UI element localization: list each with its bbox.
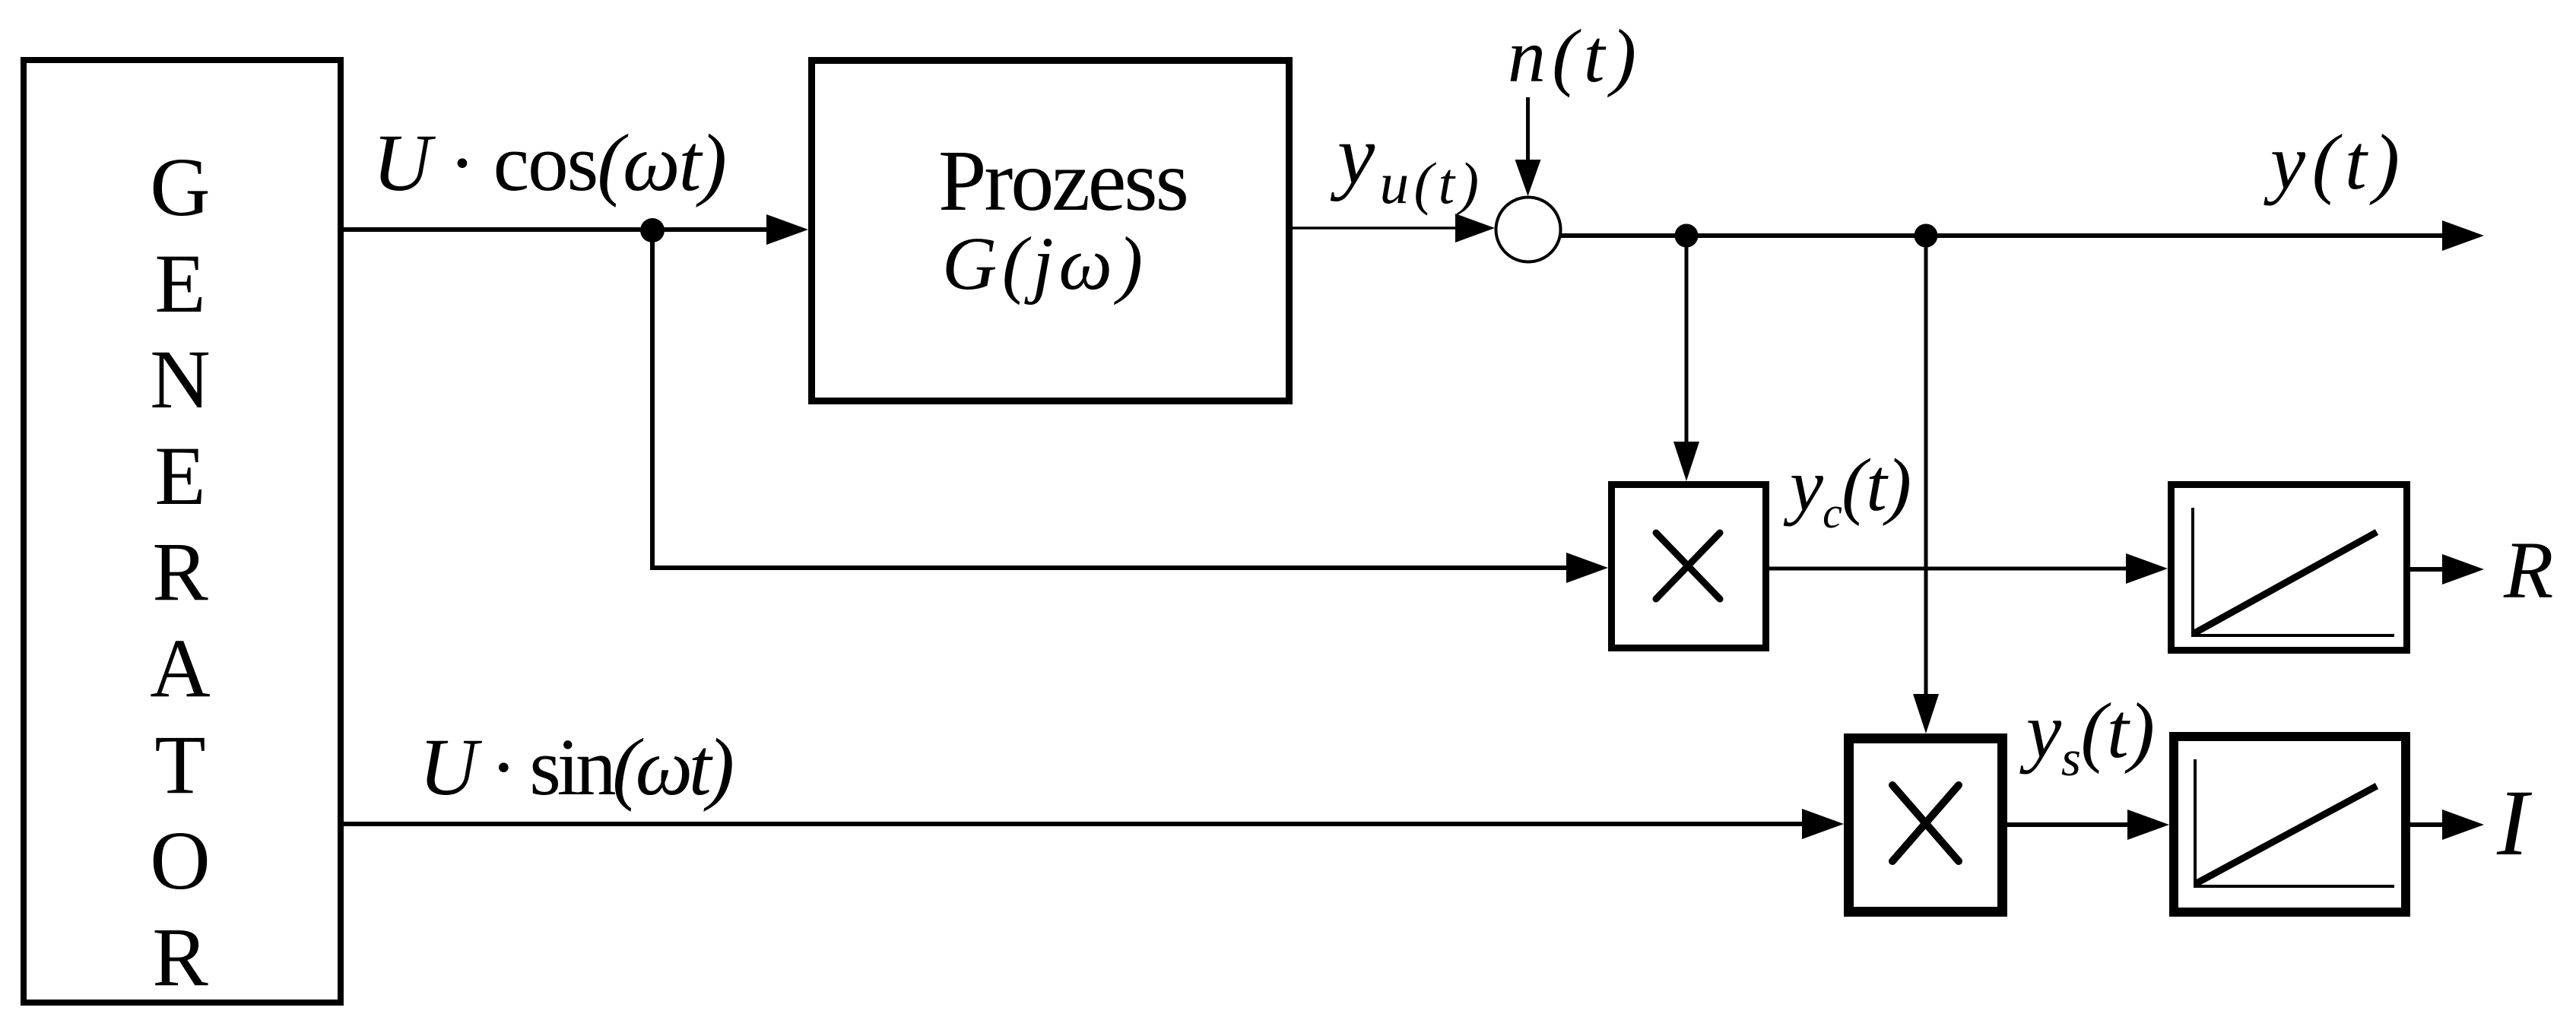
multiplier 1 X symbol	[1656, 533, 1720, 599]
arrowhead into I-display	[2127, 809, 2169, 840]
svg-text:I: I	[2496, 771, 2533, 875]
wire Prozess to sum (thin)	[1293, 227, 1460, 230]
svg-text:U · sin(ωt): U · sin(ωt)	[419, 723, 734, 813]
arrowhead y(t) output	[2442, 220, 2484, 251]
multiplier 2 block	[1849, 739, 2003, 912]
multiplier 1 block	[1612, 485, 1766, 648]
svg-text:O: O	[150, 814, 210, 907]
R-display ramp	[2194, 532, 2377, 633]
arrowhead into R-display	[2126, 553, 2168, 584]
wire multiplier 1 to R-display	[1769, 567, 2129, 571]
svg-text:yc(t): yc(t)	[1783, 444, 1911, 537]
svg-text:G: G	[150, 141, 210, 233]
R-display y-axis	[2191, 508, 2194, 637]
arrowhead into multiplier 2	[1802, 809, 1844, 839]
arrowhead into multiplier 2 top	[1913, 694, 1939, 733]
node A on y wire	[1675, 224, 1699, 248]
svg-text:N: N	[150, 333, 210, 426]
wire I output	[2410, 822, 2445, 827]
svg-text:T: T	[154, 718, 205, 811]
I-display y-axis	[2194, 759, 2197, 888]
svg-text:E: E	[154, 237, 205, 330]
svg-text:Prozess: Prozess	[938, 132, 1189, 229]
wire node A down	[1685, 236, 1689, 442]
wire U*sin(wt) generator to multiplier 2	[341, 822, 1804, 826]
svg-text:R: R	[152, 911, 208, 1003]
svg-text:A: A	[150, 622, 210, 714]
node on cos wire	[640, 218, 665, 242]
wire node B down	[1924, 236, 1928, 694]
wire n(t) down	[1526, 97, 1530, 161]
arrowhead I output	[2442, 809, 2484, 840]
wire node down	[650, 230, 655, 568]
svg-text:ys(t): ys(t)	[2019, 687, 2155, 787]
wire multiplier 2 to I-display	[2007, 822, 2129, 827]
arrowhead into Prozess	[766, 214, 808, 245]
arrowhead R output	[2442, 554, 2484, 585]
svg-text:n(t): n(t)	[1508, 14, 1636, 98]
wire sum to y(t) output	[1561, 233, 2445, 238]
I-display x-axis	[2194, 885, 2394, 888]
wire R output	[2410, 567, 2445, 572]
R-display block	[2172, 485, 2407, 651]
svg-text:R: R	[152, 525, 208, 618]
multiplier 2 X symbol	[1892, 785, 1959, 861]
summing junction	[1496, 198, 1561, 262]
svg-text:y(t): y(t)	[2264, 119, 2400, 206]
svg-text:U · cos(ωt): U · cos(ωt)	[373, 119, 727, 208]
wire U*cos(wt) generator to Prozess	[341, 227, 769, 232]
svg-text:E: E	[154, 429, 205, 522]
arrowhead into multiplier 1 top	[1673, 442, 1699, 481]
arrowhead n(t) into sum	[1515, 160, 1541, 196]
Prozess block	[812, 61, 1290, 401]
wire to multiplier 1	[650, 566, 1568, 570]
generator block	[24, 60, 341, 1003]
I-display block	[2174, 737, 2406, 912]
node B on y wire	[1915, 224, 1938, 248]
arrowhead into sum	[1455, 214, 1495, 242]
generator label GENERATOR vertical	[150, 141, 210, 1003]
R-display x-axis	[2191, 634, 2394, 637]
I-display ramp	[2195, 786, 2377, 884]
arrowhead into multiplier 1	[1566, 553, 1608, 583]
svg-text:R: R	[2503, 526, 2553, 616]
